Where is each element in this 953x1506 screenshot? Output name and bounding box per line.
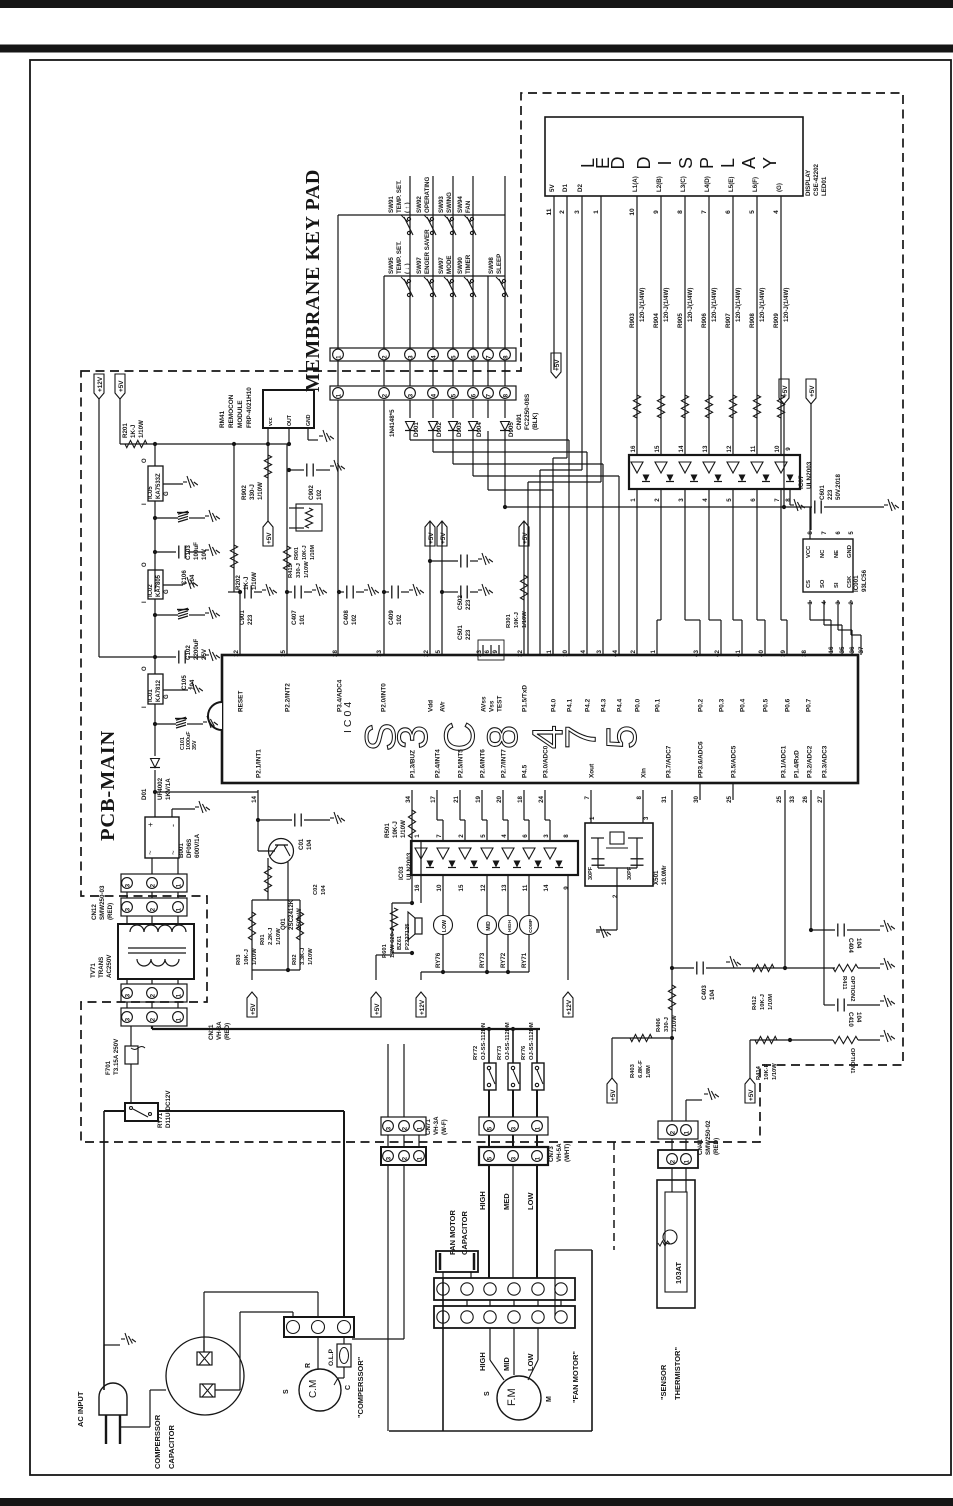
svg-text:AC250V: AC250V bbox=[106, 954, 113, 978]
svg-text:34: 34 bbox=[405, 795, 412, 802]
svg-text:10K-J: 10K-J bbox=[302, 545, 308, 560]
svg-text:G: G bbox=[164, 589, 170, 594]
svg-text:MODE: MODE bbox=[446, 255, 453, 274]
cap C106 104 bbox=[153, 550, 157, 554]
svg-text:1: 1 bbox=[534, 1156, 541, 1160]
svg-text:C501: C501 bbox=[457, 625, 464, 640]
svg-text:DISPLAY: DISPLAY bbox=[805, 169, 812, 196]
svg-text:223: 223 bbox=[827, 489, 834, 500]
svg-text:S: S bbox=[283, 1389, 290, 1394]
svg-text:1/10W: 1/10W bbox=[400, 820, 407, 838]
svg-text:11: 11 bbox=[522, 884, 529, 891]
svg-text:LED01: LED01 bbox=[821, 176, 828, 196]
svg-text:P0.3: P0.3 bbox=[719, 698, 726, 712]
svg-text:P0.0: P0.0 bbox=[635, 698, 642, 712]
svg-text:3: 3 bbox=[678, 498, 685, 502]
svg-text:9: 9 bbox=[563, 886, 570, 890]
svg-text:AVss: AVss bbox=[481, 696, 488, 712]
AVr rail with +5V flag and cap C501 223 bbox=[441, 521, 443, 655]
diode D903 bbox=[449, 422, 458, 431]
svg-text:SMW250-03: SMW250-03 bbox=[99, 885, 106, 920]
svg-text:CAPACITOR: CAPACITOR bbox=[167, 1425, 176, 1469]
svg-text:BZ61: BZ61 bbox=[397, 935, 403, 950]
svg-text:P0.5: P0.5 bbox=[763, 698, 770, 712]
svg-text:D905: D905 bbox=[508, 422, 515, 437]
svg-text:1: 1 bbox=[175, 907, 182, 911]
svg-text:R902: R902 bbox=[241, 485, 248, 500]
svg-text:LOW: LOW bbox=[526, 1192, 535, 1210]
svg-text:120-J(1/4W): 120-J(1/4W) bbox=[639, 288, 646, 322]
svg-text:5: 5 bbox=[435, 649, 442, 653]
svg-text:100uF: 100uF bbox=[193, 542, 200, 560]
svg-text:26: 26 bbox=[802, 795, 809, 802]
svg-text:R904: R904 bbox=[653, 313, 660, 328]
svg-text:TIMER: TIMER bbox=[465, 254, 472, 274]
svg-text:C601: C601 bbox=[819, 485, 826, 500]
svg-text:SW93: SW93 bbox=[438, 196, 445, 213]
svg-text:1: 1 bbox=[593, 210, 600, 214]
sensor thermistor housing bbox=[671, 1168, 673, 1192]
svg-text:KA7533Z: KA7533Z bbox=[156, 473, 162, 499]
resistor R02 3.3K-J 1/10W bbox=[299, 900, 301, 970]
svg-text:C102: C102 bbox=[185, 645, 192, 660]
IC03 buffer channel 6 bbox=[523, 848, 535, 859]
+5V flag feeding EEPROM rail bbox=[783, 404, 785, 507]
regulator IC05 KA7533Z bbox=[154, 444, 156, 466]
svg-text:RY73: RY73 bbox=[497, 1045, 503, 1060]
switch SW98 SLEEP bbox=[502, 279, 505, 282]
svg-text:CS: CS bbox=[806, 580, 812, 588]
svg-text:L2(B): L2(B) bbox=[656, 176, 663, 192]
svg-text:P2.7/INT7: P2.7/INT7 bbox=[501, 749, 508, 778]
svg-text:9: 9 bbox=[785, 447, 792, 451]
svg-text:CN41: CN41 bbox=[697, 1139, 704, 1155]
svg-text:1: 1 bbox=[175, 1017, 182, 1021]
svg-text:+12V: +12V bbox=[97, 376, 104, 392]
CN71 load wires bbox=[387, 1165, 389, 1431]
svg-text:UF4002: UF4002 bbox=[157, 777, 164, 800]
svg-text:32: 32 bbox=[517, 649, 524, 656]
fuse F701 T3.15A 250V bbox=[125, 1046, 138, 1064]
svg-text:1: 1 bbox=[416, 1156, 423, 1160]
svg-text:~: ~ bbox=[146, 850, 155, 855]
svg-text:B001: B001 bbox=[178, 843, 185, 858]
svg-text:12: 12 bbox=[726, 445, 733, 452]
resistor R412 10K-J 1/10W bbox=[726, 967, 835, 969]
svg-text:PCB-MAIN: PCB-MAIN bbox=[97, 730, 119, 841]
svg-text:23: 23 bbox=[476, 649, 483, 656]
reset wire to IC04 pin12 bbox=[239, 592, 241, 655]
fan motor F.M bbox=[497, 1376, 541, 1420]
svg-text:7: 7 bbox=[584, 795, 591, 799]
svg-text:12: 12 bbox=[480, 884, 487, 891]
IC07 buffer channel 6 bbox=[751, 462, 763, 473]
resistor R909 120-J(1/4W) bbox=[777, 395, 784, 418]
svg-text:2: 2 bbox=[669, 1159, 676, 1163]
svg-text:2: 2 bbox=[630, 649, 637, 653]
Vdd rail with +5V flag and cap C502 223 bbox=[429, 521, 431, 655]
resistor R413 OPTION1 bbox=[833, 1036, 858, 1043]
svg-text:+5V: +5V bbox=[554, 359, 561, 371]
svg-text:20: 20 bbox=[496, 795, 503, 802]
svg-text:10K-J: 10K-J bbox=[392, 821, 399, 838]
IC07 buffer channel 3 bbox=[679, 462, 691, 473]
svg-text:F701: F701 bbox=[105, 1060, 112, 1075]
svg-text:36: 36 bbox=[849, 646, 856, 653]
svg-text:C407: C407 bbox=[291, 610, 298, 625]
cap C102 2200uF 25V bbox=[154, 599, 156, 674]
svg-text:RY71: RY71 bbox=[157, 1112, 164, 1128]
relay RY72 OJ-SS-112DN contact bbox=[488, 1029, 490, 1063]
svg-text:C105: C105 bbox=[181, 675, 188, 690]
svg-text:3: 3 bbox=[389, 725, 437, 749]
svg-text:1/10M: 1/10M bbox=[768, 994, 774, 1010]
cap C103 100uF 10V bbox=[154, 501, 156, 592]
svg-text:OPTION2: OPTION2 bbox=[849, 976, 855, 1001]
svg-text:+5V: +5V bbox=[809, 385, 816, 397]
svg-text:L4(D): L4(D) bbox=[704, 176, 711, 192]
svg-text:O: O bbox=[142, 562, 148, 567]
svg-text:P4.0: P4.0 bbox=[551, 698, 558, 712]
svg-text:RY76: RY76 bbox=[435, 952, 442, 968]
svg-text:R03: R03 bbox=[236, 954, 242, 965]
svg-text:R901: R901 bbox=[294, 547, 300, 560]
svg-text:R415: R415 bbox=[288, 563, 294, 578]
svg-text:1: 1 bbox=[335, 355, 342, 359]
svg-text:44: 44 bbox=[612, 649, 619, 656]
svg-text:C: C bbox=[436, 721, 484, 752]
svg-text:OJ-SS-112DN: OJ-SS-112DN bbox=[481, 1023, 487, 1060]
plug connection wire bbox=[121, 1426, 150, 1428]
svg-text:O: O bbox=[142, 458, 148, 463]
resistor R901 10K-J 1/10W feedback bbox=[296, 504, 322, 531]
svg-text:C409: C409 bbox=[388, 610, 395, 625]
svg-text:10: 10 bbox=[436, 884, 443, 891]
switch SW92 OPERATING bbox=[430, 217, 433, 220]
IC07 buffer channel 2 bbox=[655, 462, 667, 473]
svg-text:D904: D904 bbox=[476, 422, 483, 437]
connector CN12 SMW250-03 (RED) bbox=[121, 874, 187, 892]
svg-text:P0.1: P0.1 bbox=[655, 698, 662, 712]
svg-text:Vdd: Vdd bbox=[428, 700, 435, 712]
dashed stub below board outline near sensor connector bbox=[613, 1142, 615, 1250]
overload protector O.L.P bbox=[337, 1344, 351, 1367]
svg-text:IC07: IC07 bbox=[798, 475, 805, 489]
svg-text:+5V: +5V bbox=[748, 1089, 755, 1101]
connector CN11 VH-3A (RED) bbox=[121, 984, 187, 1002]
svg-text:GND: GND bbox=[306, 414, 312, 426]
bottom thick rule bar bbox=[0, 1498, 953, 1506]
svg-text:IC05: IC05 bbox=[148, 486, 154, 499]
svg-text:RY73: RY73 bbox=[479, 952, 486, 968]
svg-text:21: 21 bbox=[453, 795, 460, 802]
svg-text:R906: R906 bbox=[701, 313, 708, 328]
svg-text:X501: X501 bbox=[653, 870, 660, 885]
svg-text:4: 4 bbox=[501, 834, 508, 838]
svg-text:(WHT): (WHT) bbox=[564, 1144, 571, 1162]
svg-text:2: 2 bbox=[458, 834, 465, 838]
crystal load caps 30PF bbox=[597, 838, 599, 868]
connector CN41 SMW250-02 (RED) bbox=[658, 1121, 698, 1139]
svg-text:"SENSOR: "SENSOR bbox=[659, 1364, 668, 1400]
display data wire pin1 bbox=[600, 196, 602, 482]
AC plug bbox=[99, 1383, 127, 1415]
cap C404 104 bbox=[811, 929, 835, 931]
connector CN91 FC2250-08S (BLK) bbox=[330, 386, 516, 400]
svg-text:PP3.6/ADC6: PP3.6/ADC6 bbox=[698, 741, 705, 778]
svg-text:104: 104 bbox=[855, 1012, 862, 1023]
keypad side connector strip bbox=[330, 348, 516, 361]
svg-text:3.3K-J: 3.3K-J bbox=[300, 948, 306, 965]
svg-text:C02: C02 bbox=[313, 884, 319, 895]
svg-text:D2: D2 bbox=[577, 184, 584, 192]
svg-text:11: 11 bbox=[546, 208, 553, 215]
svg-text:S: S bbox=[484, 1391, 491, 1396]
svg-text:14: 14 bbox=[678, 445, 685, 452]
svg-text:39: 39 bbox=[780, 649, 787, 656]
capacitor wiring to compressor connector bbox=[203, 1292, 205, 1352]
svg-text:P4.2: P4.2 bbox=[585, 698, 592, 712]
cap C01 104 with ground bbox=[258, 819, 292, 821]
svg-text:93LC56: 93LC56 bbox=[861, 569, 868, 592]
svg-text:R: R bbox=[305, 1363, 312, 1368]
svg-text:RM41: RM41 bbox=[219, 411, 226, 428]
svg-text:D901: D901 bbox=[413, 422, 420, 437]
svg-text:2: 2 bbox=[381, 355, 388, 359]
svg-text:5: 5 bbox=[480, 834, 487, 838]
cap C902 102 bbox=[287, 468, 291, 472]
svg-text:SW94: SW94 bbox=[457, 196, 464, 213]
EEPROM data wires to IC04 bbox=[809, 600, 811, 620]
relay coil MID RY73 bbox=[486, 875, 488, 916]
svg-text:P4.3: P4.3 bbox=[601, 698, 608, 712]
svg-text:T3.15A 250V: T3.15A 250V bbox=[113, 1038, 120, 1075]
svg-text:D1: D1 bbox=[562, 184, 569, 192]
svg-text:M: M bbox=[546, 1396, 553, 1402]
resistor R906 120-J(1/4W) bbox=[705, 395, 712, 418]
connector mating stubs bbox=[337, 361, 339, 386]
svg-text:CN71: CN71 bbox=[425, 1119, 432, 1135]
compressor capacitor body bbox=[166, 1337, 244, 1415]
svg-text:2: 2 bbox=[381, 393, 388, 397]
REMOCON VCC wire bbox=[267, 428, 269, 444]
svg-text:120-J(1/4W): 120-J(1/4W) bbox=[735, 288, 742, 322]
svg-text:Xin: Xin bbox=[641, 768, 648, 778]
svg-text:SWING: SWING bbox=[446, 192, 453, 213]
svg-text:10: 10 bbox=[774, 445, 781, 452]
switch SW97 MODE bbox=[450, 279, 453, 282]
svg-text:L3(C): L3(C) bbox=[680, 176, 687, 192]
svg-text:SW92: SW92 bbox=[416, 196, 423, 213]
wire P3.2 sense line bbox=[810, 790, 812, 930]
svg-text:P2227125: P2227125 bbox=[405, 923, 411, 950]
svg-text:( ↓ ): ( ↓ ) bbox=[404, 263, 411, 274]
mains neutral drop wire bbox=[103, 1111, 105, 1390]
buzzer BZ61 P2227125 with resistor R601 620-J bbox=[391, 903, 393, 953]
svg-text:O.L.P: O.L.P bbox=[328, 1348, 335, 1366]
svg-text:43: 43 bbox=[693, 649, 700, 656]
svg-text:6: 6 bbox=[484, 649, 491, 653]
svg-text:1/10W: 1/10W bbox=[138, 420, 145, 438]
regulator IC01 KA7812 bbox=[148, 674, 163, 704]
svg-text:2: 2 bbox=[401, 1126, 408, 1130]
cap C403 104 bbox=[670, 966, 674, 970]
svg-text:+5V: +5V bbox=[782, 385, 789, 397]
svg-text:7: 7 bbox=[701, 210, 708, 214]
compressor motor C.M bbox=[299, 1369, 341, 1411]
relay RY73 OJ-SS-112DM contact bbox=[512, 1029, 514, 1063]
svg-text:R908: R908 bbox=[749, 313, 756, 328]
driver IC07 ULN2003 bbox=[629, 455, 800, 489]
svg-text:Q01: Q01 bbox=[280, 918, 287, 930]
12V DC bus wire bbox=[151, 1026, 153, 1029]
REMOCON GND wire bbox=[307, 428, 309, 440]
keypad row 2 feed wire bbox=[384, 275, 505, 277]
svg-text:IC01: IC01 bbox=[148, 689, 154, 702]
svg-text:3: 3 bbox=[596, 649, 603, 653]
svg-text:14: 14 bbox=[543, 884, 550, 891]
AC earth ground bbox=[103, 1345, 105, 1383]
resistor R903 120-J(1/4W) bbox=[633, 395, 640, 418]
resistor R03 10K-J 1/10W bbox=[251, 900, 253, 970]
svg-text:5: 5 bbox=[749, 210, 756, 214]
svg-text:P2.5/INT5: P2.5/INT5 bbox=[458, 749, 465, 778]
relay coil COMP RY71 bbox=[528, 875, 530, 916]
svg-text:11: 11 bbox=[750, 445, 757, 452]
svg-text:1: 1 bbox=[534, 1126, 541, 1130]
svg-text:"COMPERSSOR": "COMPERSSOR" bbox=[356, 1356, 365, 1418]
svg-text:MED: MED bbox=[502, 1193, 511, 1210]
svg-text:5: 5 bbox=[486, 1126, 493, 1130]
svg-text:10K-J: 10K-J bbox=[760, 994, 766, 1010]
svg-text:~: ~ bbox=[169, 850, 178, 855]
svg-text:+5V: +5V bbox=[610, 1089, 617, 1101]
diode D905 bbox=[501, 422, 510, 431]
svg-text:COMP: COMP bbox=[528, 919, 533, 933]
top thick rule bar bbox=[0, 0, 953, 8]
svg-text:19: 19 bbox=[475, 795, 482, 802]
diode D904 bbox=[469, 422, 478, 431]
svg-text:102: 102 bbox=[396, 614, 403, 625]
CN71 feed wires bbox=[387, 1044, 389, 1117]
resistor R905 120-J(1/4W) bbox=[681, 395, 688, 418]
svg-text:TRANS: TRANS bbox=[98, 957, 105, 978]
svg-text:KA7805: KA7805 bbox=[156, 574, 162, 597]
svg-text:600V/1A: 600V/1A bbox=[194, 833, 201, 858]
svg-text:5: 5 bbox=[450, 355, 457, 359]
diode D902 bbox=[429, 422, 438, 431]
svg-text:10: 10 bbox=[562, 649, 569, 656]
svg-text:120-J(1/4W): 120-J(1/4W) bbox=[687, 288, 694, 322]
svg-text:(RED): (RED) bbox=[107, 903, 114, 920]
wire IC04 pin14 to driver stage bbox=[257, 790, 259, 851]
+12V output flag bbox=[94, 374, 104, 399]
svg-text:GND: GND bbox=[847, 545, 853, 558]
svg-text:R403: R403 bbox=[630, 1063, 636, 1078]
svg-text:+5V: +5V bbox=[250, 1003, 257, 1015]
resistor R201 1K-J 1/10W bbox=[125, 440, 147, 447]
svg-text:+: + bbox=[146, 822, 155, 827]
svg-text:Y: Y bbox=[760, 157, 780, 169]
cap C105 104 bbox=[155, 656, 176, 658]
svg-text:7: 7 bbox=[774, 498, 781, 502]
svg-text:TEMP. SET.: TEMP. SET. bbox=[396, 180, 403, 213]
svg-text:R907: R907 bbox=[725, 313, 732, 328]
svg-text:P3.4/ADC4: P3.4/ADC4 bbox=[337, 679, 344, 712]
svg-text:P0.7: P0.7 bbox=[806, 698, 813, 712]
svg-text:1N4148*5: 1N4148*5 bbox=[389, 409, 396, 437]
svg-text:AC INPUT: AC INPUT bbox=[76, 1391, 85, 1427]
wire P3.1 sense line bbox=[784, 790, 786, 968]
IC07 buffer channel 1 bbox=[631, 462, 643, 473]
svg-text:NE: NE bbox=[834, 550, 840, 558]
svg-text:4: 4 bbox=[580, 649, 587, 653]
svg-text:1: 1 bbox=[416, 1126, 423, 1130]
svg-text:1/10W: 1/10W bbox=[257, 482, 264, 500]
svg-text:5: 5 bbox=[726, 498, 733, 502]
svg-text:VH-5A: VH-5A bbox=[556, 1143, 563, 1162]
svg-text:A: A bbox=[739, 157, 759, 169]
svg-text:1K-J: 1K-J bbox=[130, 424, 137, 438]
svg-text:1: 1 bbox=[630, 498, 637, 502]
svg-text:38: 38 bbox=[801, 649, 808, 656]
svg-text:IC001: IC001 bbox=[853, 575, 860, 592]
svg-text:15: 15 bbox=[654, 445, 661, 452]
svg-text:8: 8 bbox=[563, 834, 570, 838]
svg-text:3: 3 bbox=[385, 1156, 392, 1160]
relay coil common rail with +12V flags bbox=[421, 971, 529, 973]
svg-text:R501: R501 bbox=[384, 823, 391, 838]
svg-text:P2.4/INT4: P2.4/INT4 bbox=[435, 749, 442, 778]
svg-text:P3.5/ADC5: P3.5/ADC5 bbox=[731, 745, 738, 778]
svg-text:27: 27 bbox=[817, 795, 824, 802]
second header rule bbox=[0, 45, 953, 53]
svg-text:FC2250-08S: FC2250-08S bbox=[524, 393, 531, 430]
svg-text:MID: MID bbox=[486, 921, 492, 931]
+5V output flag bbox=[115, 374, 125, 399]
svg-text:SW90: SW90 bbox=[457, 257, 464, 274]
svg-text:120-J(1/4W): 120-J(1/4W) bbox=[783, 288, 790, 322]
crystal element bbox=[591, 837, 604, 839]
svg-text:TEST: TEST bbox=[497, 696, 504, 712]
svg-text:FAN MOTOR: FAN MOTOR bbox=[448, 1210, 457, 1255]
svg-text:RY72: RY72 bbox=[500, 952, 507, 968]
IC04 pin1 index notch bbox=[208, 702, 222, 730]
IC03 buffer channel 7 bbox=[544, 848, 556, 859]
svg-text:SW97: SW97 bbox=[438, 257, 445, 274]
svg-text:C01: C01 bbox=[298, 838, 305, 850]
svg-text:330-J: 330-J bbox=[296, 563, 302, 578]
svg-text:9: 9 bbox=[653, 210, 660, 214]
svg-text:102: 102 bbox=[351, 614, 358, 625]
svg-text:COMPERSSOR: COMPERSSOR bbox=[153, 1414, 162, 1469]
svg-text:S: S bbox=[676, 157, 696, 169]
svg-text:2: 2 bbox=[149, 1017, 156, 1021]
svg-text:G: G bbox=[164, 491, 170, 496]
svg-text:C410: C410 bbox=[847, 1012, 854, 1027]
crystal ground leg bbox=[598, 867, 637, 869]
svg-text:RY71: RY71 bbox=[521, 952, 528, 968]
svg-text:CSK: CSK bbox=[847, 575, 853, 588]
svg-text:CN91: CN91 bbox=[516, 413, 523, 430]
svg-text:OJ-SS-112DM: OJ-SS-112DM bbox=[505, 1022, 511, 1060]
svg-text:P0.2: P0.2 bbox=[698, 698, 705, 712]
svg-text:2: 2 bbox=[149, 993, 156, 997]
svg-text:(RED): (RED) bbox=[224, 1023, 231, 1040]
svg-text:FRP-4021H10: FRP-4021H10 bbox=[246, 387, 253, 428]
regulator IC02 KA7805 bbox=[148, 570, 163, 599]
svg-text:RY72: RY72 bbox=[473, 1046, 479, 1060]
